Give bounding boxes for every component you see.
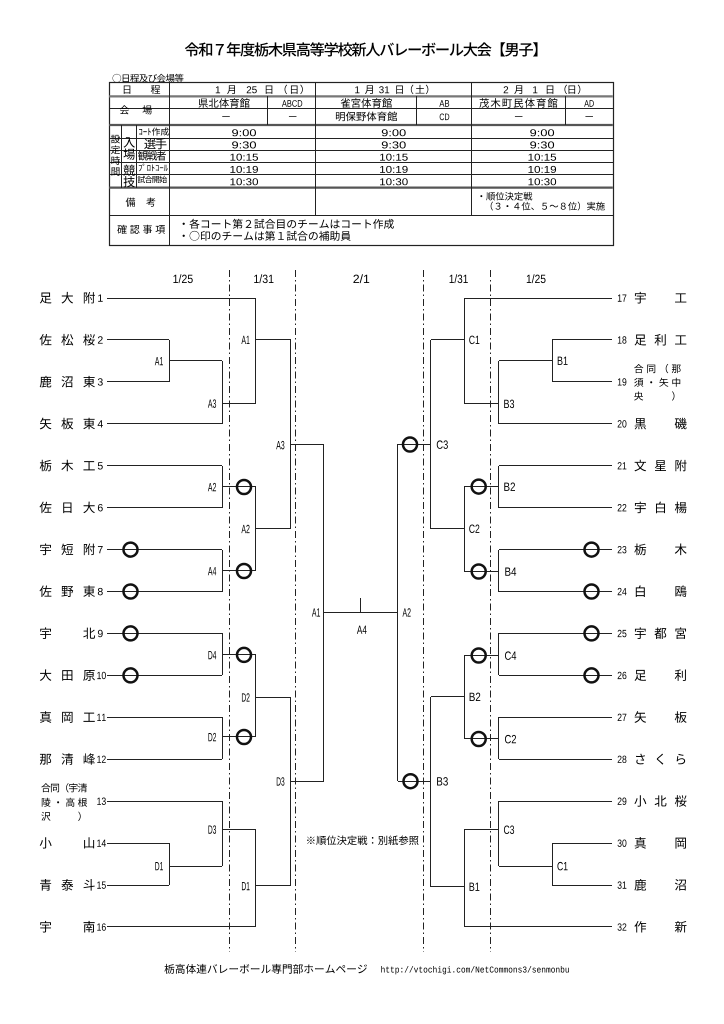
team 16 宇南 row	[40, 921, 51, 933]
time values	[232, 129, 238, 136]
match C3 (1/31) quarterfinal connector	[430, 340, 432, 529]
venue 雀宮体育館 + AB	[341, 98, 350, 108]
subtitle ○日程及び会場等	[113, 74, 122, 83]
match B4 (1/25) 23v24 connector	[498, 550, 500, 592]
match A4 (1/25) 7v8 connector	[222, 550, 224, 592]
team 28 さくら row	[636, 754, 645, 765]
round date 1/31 left	[254, 275, 259, 283]
team 2 佐松桜 row	[40, 334, 52, 346]
team 9 宇北 row	[40, 627, 51, 639]
備考 cell ・順位決定戦	[480, 195, 482, 197]
team 22 宇白楊 row	[635, 502, 646, 514]
round separator dash-dot line 3	[423, 270, 425, 952]
match C3 (1/25) 29 v winnerC1 connector	[498, 801, 500, 866]
match A1 (1/25) 2v3 connector	[169, 340, 171, 382]
match C1 (1/31) 17 v winnerB3 connector	[464, 298, 466, 404]
vertical label 競技	[123, 165, 135, 176]
semifinal A1 (2/1) connector	[323, 445, 325, 781]
match A2 (1/31) connector	[255, 487, 257, 571]
team 21 文星附 row	[634, 460, 646, 472]
team 13 合同（宇清陵・高根沢） row	[41, 783, 50, 792]
vertical label 設定時間	[111, 135, 120, 144]
row label 日程	[124, 85, 131, 93]
round separator dash-dot line 2	[295, 270, 297, 952]
round date 2/1 center	[353, 275, 359, 283]
確認事項 line2 ・○印のチームは第１試合の補助員	[183, 235, 185, 237]
team 30 真岡 row	[635, 837, 646, 849]
round separator dash-dot line 4	[490, 270, 492, 952]
team 32 作新 row	[634, 921, 646, 933]
match D3 (1/25) 13 v winnerD1 connector	[222, 801, 224, 866]
vertical label 入場	[124, 137, 135, 147]
team 25 宇都宮 row	[635, 627, 646, 639]
round date 1/25 right	[527, 275, 531, 283]
match B2 (1/31) connector	[464, 656, 466, 739]
team 31 鹿沼 row	[634, 879, 646, 891]
team 7 宇短附 row	[40, 544, 51, 556]
match D3 (1/31) quarterfinal connector	[290, 697, 292, 886]
match C2 (1/31) connector	[464, 487, 466, 572]
venue 茂木町民体育館 + AD	[479, 98, 489, 108]
備考 cell （３・４位、５～８位）実施	[491, 202, 493, 211]
match A1 (1/31) 1 v winnerA3 connector	[255, 298, 257, 404]
match A2 (1/25) 5v6 connector	[222, 466, 224, 508]
table horizontal rules	[109, 95, 613, 97]
final A4 champion tick	[360, 598, 362, 612]
match B2 (1/25) 21v22 connector	[498, 466, 500, 508]
team 23 栃木 row	[634, 544, 646, 556]
team 27 矢板 row	[635, 711, 647, 723]
semifinal A2 (2/1) connector	[397, 444, 399, 781]
match C4 (1/25) 25v26 connector	[498, 633, 500, 675]
team 11 真岡工 row	[40, 711, 51, 723]
team 26 足利 row	[635, 670, 647, 681]
row label 確認事項	[117, 225, 126, 234]
sub label 選手	[144, 138, 155, 149]
match D1 (1/25) 14v15 connector	[169, 843, 171, 885]
team 15 青泰斗 row	[40, 879, 51, 891]
team 20 黒磯 row	[635, 418, 646, 429]
sub label コート作成	[139, 129, 142, 135]
sub label プロトコール	[139, 165, 142, 171]
match D4 (1/25) 9v10 connector	[222, 633, 224, 675]
date cell 1月31日（土）	[355, 86, 359, 93]
sub label 試合開始	[138, 176, 146, 183]
row label 備考	[126, 198, 135, 207]
match D1 (1/31) winnerD3 v 16 connector	[255, 829, 257, 927]
match A3 (1/31) quarterfinal connector	[290, 340, 292, 529]
round date 1/25 left	[173, 275, 178, 283]
schedule table outer border	[110, 83, 614, 246]
team 14 小山 row	[40, 837, 52, 848]
venue row2 － －	[222, 115, 230, 118]
venue 県北体育館 + ABCD	[199, 99, 208, 108]
table vertical rules	[169, 83, 171, 246]
match B3 (1/31) quarterfinal connector	[430, 697, 432, 887]
team 29 小北桜 row	[634, 795, 646, 806]
team 3 鹿沼東 row	[40, 376, 52, 388]
match B1 (1/25) 18v19 connector	[552, 340, 554, 382]
team 4 矢板東 row	[40, 418, 52, 430]
team 6 佐日大 row	[40, 502, 52, 514]
team 19 合同（那須・矢中央） row	[634, 364, 643, 373]
match D2 (1/25) 11v12 connector	[222, 717, 224, 759]
round separator dash-dot line 1	[229, 270, 231, 952]
確認事項 line1 ・各コート第２試合目のチームはコート作成	[183, 223, 185, 225]
date cell 1月25日（日）	[216, 86, 220, 93]
title 令和７年度栃木県高等学校新人バレーボール大会【男子】	[185, 42, 199, 56]
footer URL	[381, 966, 384, 973]
team 8 佐野東 row	[40, 585, 52, 597]
final A4 label	[357, 626, 362, 634]
row label 会場	[120, 105, 129, 114]
round date 1/31 right	[450, 275, 454, 283]
venue 明保野体育館 + CD	[336, 112, 345, 121]
note ※順位決定戦：別紙参照	[307, 837, 314, 844]
match C1 (1/25) 30v31 connector	[552, 843, 554, 885]
team 1 足大附 row	[40, 293, 52, 304]
footer 栃高体連バレーボール専門部ホームページ	[164, 964, 174, 974]
team 10 大田原 row	[40, 669, 52, 681]
match A3 (1/25) winnerA1 v 4 connector	[222, 361, 224, 424]
sub label 観戦者	[138, 151, 148, 161]
match B3 (1/25) winnerB1 v 20 connector	[498, 361, 500, 424]
team 24 白鴎 row	[636, 585, 645, 597]
venue row2 right － －	[515, 115, 523, 118]
team 18 足利工 row	[635, 335, 647, 346]
team 17 宇工 row	[635, 292, 646, 304]
match B1 (1/31) winnerC3 v 32 connector	[464, 830, 466, 927]
match D2 (1/31) connector	[255, 655, 257, 737]
team 12 那清峰 row	[40, 754, 51, 765]
match C2 (1/25) 27v28 connector	[498, 717, 500, 759]
date cell 2月1日（日）	[504, 86, 509, 93]
team 5 栃木工 row	[40, 460, 52, 472]
